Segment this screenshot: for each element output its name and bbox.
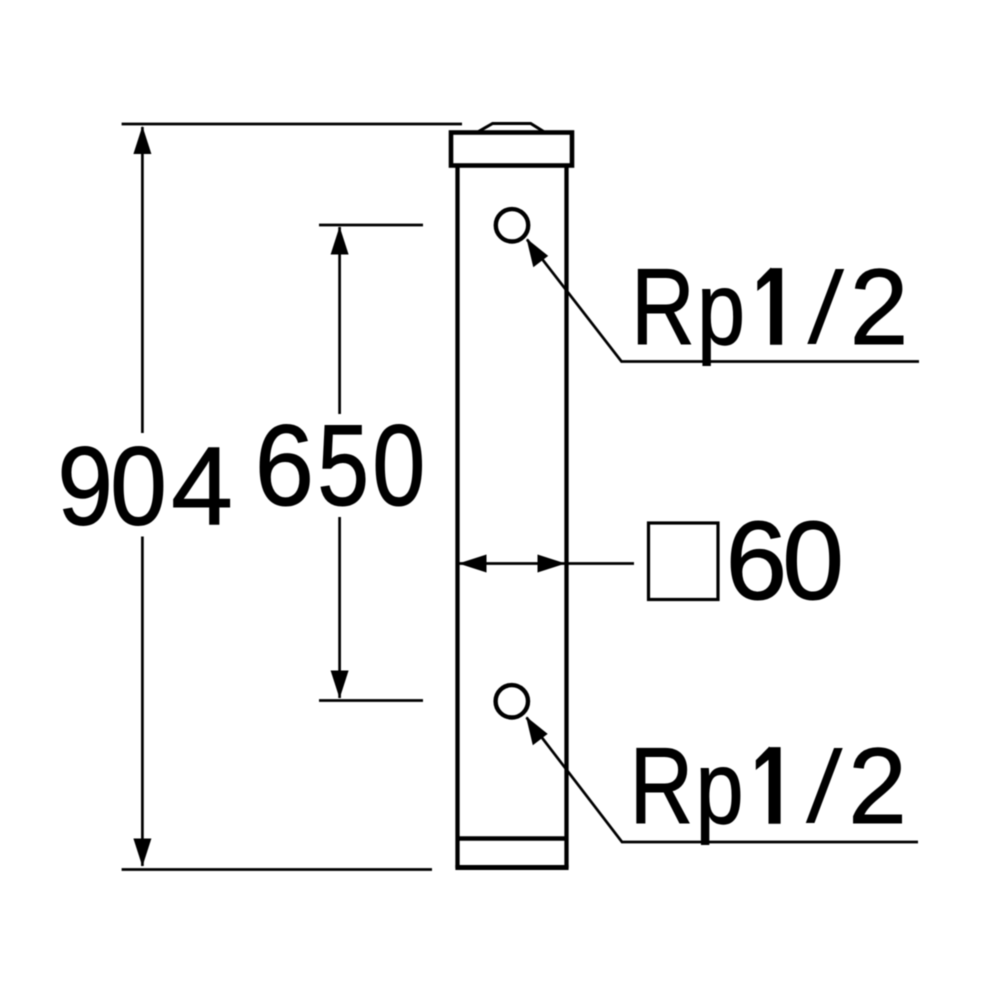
dimension 60 line bbox=[459, 562, 634, 565]
leader line bottom Rp1/2 bbox=[527, 718, 919, 843]
dimension 904 bottom extension line bbox=[122, 868, 432, 871]
column top cap bbox=[451, 133, 572, 166]
svg-text:60: 60 bbox=[726, 499, 845, 623]
label 650 bbox=[255, 400, 426, 530]
dimension 650 arrowhead down bbox=[331, 671, 349, 699]
leader arrowhead top bbox=[527, 239, 549, 268]
dimension 650 bottom extension line bbox=[319, 699, 423, 702]
svg-text:p: p bbox=[697, 252, 745, 367]
dimension 904 line upper segment bbox=[141, 127, 144, 433]
dimension 650 arrowhead up bbox=[331, 227, 349, 255]
svg-text:9: 9 bbox=[57, 425, 113, 549]
svg-text:5: 5 bbox=[317, 402, 369, 531]
dimension 650 line lower segment bbox=[338, 517, 341, 698]
svg-text:4: 4 bbox=[171, 425, 233, 549]
svg-text:6: 6 bbox=[255, 400, 314, 529]
dimension 60 arrowhead right bbox=[538, 555, 566, 573]
label 904 bbox=[57, 424, 233, 549]
column body bbox=[458, 166, 567, 868]
dimension 904 top extension line bbox=[122, 123, 462, 126]
column bottom edge bbox=[455, 865, 568, 870]
svg-text:2: 2 bbox=[850, 246, 909, 368]
label Rp1/2 bottom bbox=[629, 725, 906, 847]
svg-text:0: 0 bbox=[372, 402, 425, 530]
svg-text:p: p bbox=[695, 731, 743, 846]
svg-text:R: R bbox=[629, 725, 693, 847]
dimension 904 arrowhead down bbox=[133, 839, 151, 867]
dimension 904 line lower segment bbox=[141, 537, 144, 867]
top tap hole circle bbox=[496, 209, 528, 241]
bottom tap hole circle bbox=[496, 685, 528, 717]
svg-text:0: 0 bbox=[110, 424, 167, 549]
cap lid bump bbox=[479, 124, 544, 132]
dimension 650 line upper segment bbox=[338, 227, 341, 414]
label Rp1/2 top bbox=[631, 246, 908, 368]
square symbol for 60 bbox=[649, 523, 719, 600]
dimension 60 arrowhead left bbox=[459, 555, 487, 573]
dimension 904 arrowhead up bbox=[133, 126, 151, 154]
svg-text:2: 2 bbox=[848, 725, 907, 847]
dimension 650 top extension line bbox=[319, 224, 423, 227]
leader line top Rp1/2 bbox=[527, 240, 919, 362]
leader arrowhead bottom bbox=[526, 717, 548, 746]
svg-text:R: R bbox=[631, 246, 695, 368]
column bottom band divider bbox=[456, 836, 569, 841]
